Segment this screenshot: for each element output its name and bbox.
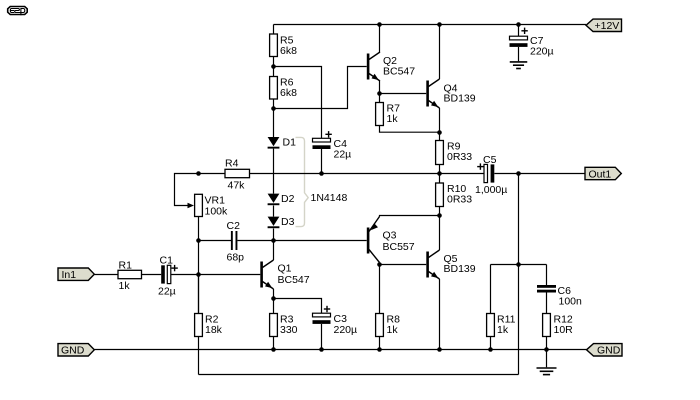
wire D1-D2 link — [273, 149, 275, 194]
junction node B1 (R5/R6) — [271, 64, 276, 69]
wire R9 top lead — [439, 133, 441, 141]
wire Q3 collector — [379, 263, 381, 265]
wire Q4 collector — [439, 25, 441, 80]
wire +12V rail — [274, 24, 587, 26]
transistor Q3 — [367, 217, 415, 263]
svg-text:68p: 68p — [227, 251, 245, 263]
svg-text:In1: In1 — [62, 269, 77, 281]
ground (below C7) — [510, 62, 528, 69]
wire R3 bottom lead — [273, 337, 275, 350]
svg-text:BD139: BD139 — [444, 93, 476, 105]
wire D2-D3 link — [273, 206, 275, 217]
wire Q4 emitter — [439, 108, 441, 133]
brace 1N4148 group — [296, 137, 309, 226]
wire C6 top lead — [546, 265, 548, 286]
value label 1N4148 — [311, 192, 348, 204]
junction R10/Q3 emitter node — [437, 213, 442, 218]
wire R11/C6 link — [491, 264, 547, 266]
wire C7 top lead — [518, 25, 520, 37]
wire R5-R6 link — [273, 57, 275, 77]
svg-text:1k: 1k — [497, 324, 509, 336]
wire C4 bottom lead — [321, 149, 323, 174]
svg-text:R1: R1 — [119, 259, 133, 271]
svg-text:BC547: BC547 — [383, 65, 415, 77]
wire D1 anode lead — [273, 109, 275, 138]
svg-text:GND: GND — [597, 345, 621, 357]
transistor Q5 — [426, 250, 475, 279]
diode D1 — [268, 136, 296, 148]
junction D3/Q1 collector node — [271, 238, 276, 243]
wire C6 bottom lead — [546, 293, 548, 314]
wire Q1 emitter — [273, 289, 275, 299]
wire D3 cathode lead — [273, 229, 275, 241]
wire R5 top lead — [273, 25, 275, 35]
svg-text:0R33: 0R33 — [447, 151, 472, 163]
resistor R3 — [270, 313, 298, 336]
wire C3 bottom lead — [321, 324, 323, 350]
svg-text:6k8: 6k8 — [280, 45, 297, 57]
junction R8 gnd — [377, 347, 382, 352]
svg-text:D1: D1 — [283, 136, 297, 148]
wire C2 to Q3 base — [237, 240, 366, 242]
svg-text:100k: 100k — [205, 205, 229, 217]
svg-text:1k: 1k — [119, 280, 131, 292]
wire Q2 collector — [379, 25, 381, 53]
svg-text:C2: C2 — [227, 220, 241, 232]
wire R2 bottom lead — [198, 337, 200, 375]
capacitor C3 — [313, 306, 358, 336]
wire R7 bottom to Q4 emitter — [380, 126, 440, 133]
svg-text:22µ: 22µ — [334, 149, 352, 161]
capacitor C1 — [158, 254, 178, 297]
wire node B2 to Q2 base — [274, 67, 367, 109]
diode D3 — [268, 216, 295, 228]
wire R10 bottom lead — [439, 207, 441, 216]
svg-text:220µ: 220µ — [530, 45, 554, 57]
potentiometer VR1 — [195, 194, 228, 217]
svg-text:6k8: 6k8 — [280, 87, 297, 99]
svg-text:+12V: +12V — [595, 20, 620, 32]
capacitor C4 — [313, 131, 352, 160]
junction C4 node — [319, 171, 324, 176]
wire Q1 collector — [273, 241, 275, 261]
output tag Out1 — [585, 167, 621, 180]
svg-text:22µ: 22µ — [158, 285, 176, 297]
wire R2 top lead — [198, 275, 200, 314]
resistor R4 — [225, 158, 250, 192]
wire mid rail left — [199, 173, 226, 175]
wire feedback bottom — [199, 374, 519, 376]
wire VR1 bottom lead — [198, 217, 200, 314]
junction R9/R10 node — [437, 171, 442, 176]
wire In1 to R1 — [94, 274, 118, 276]
resistor R7 — [376, 102, 400, 125]
svg-text:47k: 47k — [228, 179, 246, 191]
svg-text:1,000µ: 1,000µ — [475, 184, 507, 196]
junction output node — [516, 171, 521, 176]
junction C7 node — [516, 22, 521, 27]
resistor R9 — [436, 140, 473, 164]
junction C3 gnd — [319, 347, 324, 352]
svg-text:Q1: Q1 — [278, 262, 292, 274]
svg-text:220µ: 220µ — [334, 324, 358, 336]
wire GND rail — [94, 349, 586, 351]
svg-text:BD139: BD139 — [444, 263, 476, 275]
ground tag GND left — [58, 344, 94, 357]
svg-text:GND: GND — [61, 345, 85, 357]
transistor Q1 — [260, 260, 309, 289]
junction Q5 emitter gnd — [437, 347, 442, 352]
junction Q1 emitter node — [271, 296, 276, 301]
transistor Q2 — [367, 52, 415, 81]
wire R12 bottom lead — [546, 337, 548, 350]
resistor R12 — [543, 313, 574, 336]
resistor R8 — [376, 313, 400, 336]
svg-text:330: 330 — [280, 324, 298, 336]
svg-text:R4: R4 — [225, 158, 239, 170]
wire Q2 emitter — [379, 81, 381, 94]
capacitor C6 — [537, 285, 582, 308]
power tag +12V — [586, 19, 622, 32]
transistor Q4 — [426, 79, 475, 108]
wire VR1 wiper — [175, 174, 199, 209]
junction Q3 collector node — [377, 262, 382, 267]
svg-text:C1: C1 — [160, 254, 174, 266]
junction Q2 emitter node — [377, 91, 382, 96]
svg-text:100n: 100n — [559, 295, 583, 307]
wire R3 top lead — [273, 299, 275, 314]
wire R9 bottom lead — [439, 165, 441, 174]
ground (below R12) — [537, 368, 557, 375]
wire C7 bottom lead — [518, 47, 520, 61]
wire Q1 emitter to C3 — [274, 299, 322, 314]
wire R6 bottom lead — [273, 99, 275, 109]
wire R8 top lead — [379, 265, 381, 314]
ESP logo — [8, 7, 28, 16]
junction Q4 emitter node — [437, 130, 442, 135]
junction R11 gnd — [488, 347, 493, 352]
svg-text:Out1: Out1 — [589, 168, 612, 180]
wire C1 to Q1 base — [171, 274, 260, 276]
wire mid rail (R4 to C5) — [250, 173, 485, 175]
resistor R6 — [270, 76, 297, 99]
svg-text:BC557: BC557 — [383, 241, 415, 253]
wire C5 to Out1 — [494, 173, 585, 175]
junction Q4 collector node — [437, 22, 442, 27]
svg-text:0R33: 0R33 — [447, 193, 472, 205]
svg-text:C5: C5 — [483, 154, 497, 166]
resistor R1 — [118, 259, 142, 292]
wire R11 bottom lead — [490, 337, 492, 350]
capacitor C5 — [475, 154, 507, 196]
wire Q5 collector — [439, 216, 441, 251]
svg-text:D2: D2 — [281, 193, 295, 205]
svg-text:10R: 10R — [554, 324, 574, 336]
capacitor C2 — [227, 220, 245, 263]
junction R11/C6 node — [516, 262, 521, 267]
wire R10 top lead — [439, 174, 441, 184]
resistor R11 — [487, 313, 516, 336]
wire R7 top lead — [379, 94, 381, 103]
wire Q5 emitter — [439, 279, 441, 350]
resistor R10 — [436, 183, 473, 207]
diode D2 — [268, 193, 295, 205]
wire R11 top lead — [490, 265, 492, 314]
capacitor C7 — [510, 28, 554, 58]
input tag In1 — [58, 268, 94, 281]
wire R12 ground lead — [546, 350, 548, 368]
wire Q2 emitter to Q4 base — [380, 93, 427, 95]
junction node B2 (R6/D1) — [271, 106, 276, 111]
wire output node vertical — [518, 174, 520, 375]
svg-text:BC547: BC547 — [278, 274, 310, 286]
svg-text:1k: 1k — [387, 324, 399, 336]
wire Q3 collector to Q5 base — [380, 264, 427, 266]
ground tag GND right — [587, 344, 623, 357]
wire node B1 to C4 — [274, 67, 322, 139]
svg-text:D3: D3 — [281, 216, 295, 228]
junction C2 left node — [196, 238, 201, 243]
junction R12 gnd — [544, 347, 549, 352]
svg-text:1N4148: 1N4148 — [311, 192, 348, 204]
svg-text:1k: 1k — [387, 113, 399, 125]
svg-text:Q3: Q3 — [383, 229, 397, 241]
resistor R5 — [270, 34, 297, 57]
junction VR1 top node — [196, 171, 201, 176]
wire R8 bottom lead — [379, 337, 381, 350]
wire R1 to C1 — [142, 274, 162, 276]
junction Q2 collector node — [377, 22, 382, 27]
svg-text:18k: 18k — [205, 324, 223, 336]
wire C2 left — [199, 240, 232, 242]
resistor R2 — [195, 313, 223, 336]
wire Q3 emitter — [380, 216, 440, 217]
junction R3 gnd — [271, 347, 276, 352]
junction Q1 base node — [196, 272, 201, 277]
